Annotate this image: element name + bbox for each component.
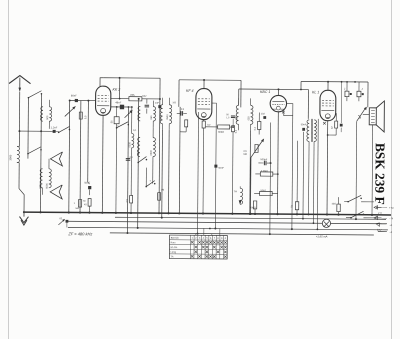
IF2 coil b	[251, 105, 254, 124]
svg-text:102: 102	[261, 112, 266, 115]
resistor 705	[111, 98, 129, 100]
wire top rail 1	[103, 77, 160, 79]
coil L3	[132, 133, 134, 147]
capacitor C-KF4	[214, 165, 217, 168]
label 500	[46, 115, 49, 120]
svg-text:0500: 0500	[166, 114, 169, 120]
label 050b	[247, 116, 250, 121]
wire bus 5	[110, 233, 374, 235]
wire x115 drop	[116, 107, 118, 117]
scan edge right	[391, 0, 393, 339]
terminal arrow 2	[376, 217, 387, 219]
resistor R-KBC grid	[257, 121, 260, 129]
wire x178 drop	[178, 80, 180, 107]
coil L4b	[138, 138, 141, 157]
svg-text:500pF: 500pF	[260, 158, 267, 161]
svg-text:- A: - A	[389, 223, 392, 227]
label 040	[137, 115, 140, 120]
wave arrow lower	[50, 185, 62, 199]
label 5000	[46, 183, 49, 189]
svg-text:3000: 3000	[8, 154, 12, 160]
wire grid feed	[70, 99, 96, 101]
wire KL1 top	[327, 82, 329, 91]
trimmer C-var	[65, 107, 75, 116]
coil L2a	[40, 169, 43, 188]
coil L5b	[153, 138, 156, 157]
label 3000	[8, 154, 12, 160]
wire x127 vert	[126, 107, 129, 233]
wire KBC rail	[239, 88, 309, 91]
svg-text:502: 502	[142, 95, 147, 98]
label 0u5	[181, 108, 185, 111]
resistor R-x296	[295, 202, 298, 210]
wire vertical x27	[27, 98, 29, 159]
wire vertical x87	[87, 101, 90, 182]
wire KF4 cathode	[203, 120, 205, 121]
wire link row y132	[19, 130, 51, 132]
wire bus 2	[115, 217, 386, 219]
output transformer	[307, 120, 309, 142]
choke top b	[358, 82, 360, 91]
svg-text:0300: 0300	[150, 150, 153, 156]
label 0500	[166, 114, 169, 120]
svg-text:M.-Do.: M.-Do.	[171, 246, 179, 249]
svg-text:050: 050	[247, 116, 250, 121]
terminal arrow 3	[378, 223, 387, 225]
junction dots bus2	[161, 217, 163, 219]
terminal arrow 4	[378, 231, 387, 233]
svg-text:TA: TA	[171, 255, 174, 258]
wire KBC1 diode tap	[284, 104, 293, 116]
capacitor C5	[145, 104, 149, 106]
wire x152 coil	[152, 101, 154, 107]
scan edge left	[8, 0, 10, 339]
switch S2	[58, 132, 60, 134]
svg-text:kΩ: kΩ	[84, 204, 87, 206]
resistor R-IF1	[185, 120, 188, 127]
svg-text:3000: 3000	[39, 183, 42, 189]
wire x270 vert	[269, 123, 271, 163]
svg-text:500: 500	[46, 115, 49, 120]
switch S-net2	[350, 217, 352, 219]
wire KBC1 cathode	[277, 112, 280, 214]
wire vertical x80	[79, 101, 82, 213]
svg-text:705: 705	[130, 93, 135, 97]
trimmer arrow KK2	[125, 112, 131, 118]
switch S-net1	[347, 201, 349, 203]
wire anode row	[111, 106, 132, 108]
IF2 trim cap	[231, 115, 235, 117]
IF2 coil a	[236, 105, 239, 124]
wire x240 drop	[240, 80, 242, 107]
resistor R-x159	[158, 193, 161, 201]
wire KF4 top	[203, 80, 205, 88]
switch S3	[116, 127, 118, 129]
antenna	[9, 75, 31, 83]
wire vertical x40	[40, 94, 43, 212]
label 0300	[137, 150, 140, 156]
wire x307 drop	[307, 90, 309, 119]
svg-text:050: 050	[150, 115, 153, 120]
coil L-ant 3000	[17, 147, 20, 163]
capacitor C-KL1k	[340, 124, 343, 127]
resistor 40ohm	[337, 204, 340, 212]
svg-text:0,3MΩ: 0,3MΩ	[261, 170, 268, 173]
svg-text:400Ω: 400Ω	[250, 206, 256, 209]
wire KK2 top cap	[100, 78, 103, 87]
svg-text:2 V: 2 V	[378, 211, 382, 215]
svg-text:ZF = 480 kHz: ZF = 480 kHz	[67, 231, 92, 236]
svg-text:60kΩ: 60kΩ	[218, 131, 224, 134]
svg-text:+ M: + M	[389, 206, 393, 210]
resistor 42	[335, 121, 338, 128]
svg-text:020: 020	[159, 115, 162, 120]
wire rail drop x118	[119, 78, 121, 99]
resistor 400	[253, 201, 256, 209]
resistor R-IF2	[232, 126, 235, 132]
svg-text:80nF: 80nF	[71, 93, 77, 97]
choke top a	[346, 82, 348, 91]
table grid	[169, 235, 227, 259]
svg-text:50nF: 50nF	[218, 167, 224, 170]
wire transformer taps	[308, 147, 311, 214]
wire KBC1 top	[277, 89, 279, 95]
wire x161 drop	[161, 130, 164, 218]
label 020b	[235, 116, 238, 121]
wire bus 4	[68, 227, 388, 230]
table feed wires	[195, 234, 197, 236]
svg-text:1,2nF: 1,2nF	[51, 125, 58, 129]
svg-text:Bereich: Bereich	[171, 237, 180, 240]
label 0u1M	[235, 129, 238, 133]
wire x166 drop	[168, 130, 171, 213]
coil L1b	[49, 107, 51, 121]
wire x246 drop	[249, 130, 252, 213]
ground	[23, 211, 25, 213]
coil L2b	[49, 169, 52, 188]
resistor 50k	[260, 191, 273, 195]
wire antenna lower	[18, 163, 20, 189]
coil L4a	[138, 107, 140, 121]
svg-text:KF 4: KF 4	[186, 89, 194, 93]
svg-text:0300: 0300	[137, 150, 140, 156]
svg-text:12V: 12V	[377, 228, 382, 232]
wire x372 vert	[371, 125, 374, 215]
junction dots bus4	[137, 227, 139, 229]
label 0100	[128, 141, 131, 147]
IF1 trim cap	[180, 111, 182, 115]
svg-text:Lang: Lang	[171, 251, 177, 254]
wire tone drop	[355, 121, 358, 219]
svg-text:Kurz: Kurz	[171, 241, 177, 244]
resistor 50	[114, 117, 119, 124]
svg-text:100: 100	[40, 115, 43, 120]
label 050	[150, 115, 153, 120]
resistor 60k	[206, 126, 218, 128]
svg-text:~ N: ~ N	[389, 216, 393, 220]
wire x292 vert	[291, 116, 294, 229]
wire x159 vert	[159, 78, 160, 213]
svg-text:48nF: 48nF	[115, 100, 121, 104]
svg-text:KL 1: KL 1	[312, 90, 319, 94]
wire x234 vert	[238, 89, 240, 105]
svg-text:1nF: 1nF	[155, 102, 160, 105]
switch S1b	[27, 153, 29, 155]
wave arrow upper	[50, 152, 62, 166]
wire x233 drop	[237, 124, 239, 130]
switch S1a	[28, 97, 30, 99]
label 020a	[159, 115, 162, 120]
coil 7A	[240, 188, 243, 204]
capacitor C-KBC	[263, 116, 266, 119]
label 100	[40, 115, 43, 120]
svg-text:0100: 0100	[128, 141, 131, 147]
wire KL1 cathode	[326, 121, 329, 215]
wire x300 drop	[300, 81, 302, 89]
wire KK2 cathode	[101, 115, 104, 212]
switch S5	[145, 186, 147, 188]
wire antenna lead	[18, 92, 20, 147]
resistor R2	[88, 199, 91, 207]
label BSK 239 F	[372, 143, 387, 205]
coil L1a	[41, 107, 43, 121]
wire bus 3	[67, 221, 386, 224]
resistor R3	[130, 195, 133, 203]
capacitor 500pF	[263, 161, 265, 165]
wire speaker left	[363, 113, 369, 115]
svg-text:+1,65 mA: +1,65 mA	[316, 234, 328, 238]
svg-text:MΩ: MΩ	[76, 208, 80, 210]
wire top rail 2	[179, 79, 241, 81]
svg-text:40Ω: 40Ω	[332, 203, 337, 206]
resistor R-KF4	[202, 121, 205, 128]
svg-text:020: 020	[235, 116, 238, 121]
capacitor C-x127	[126, 158, 130, 160]
svg-text:5000: 5000	[46, 183, 49, 189]
switch S4	[137, 162, 139, 164]
speaker	[369, 108, 376, 125]
capacitor C-x159	[158, 105, 161, 108]
wire x215 vert	[211, 103, 216, 228]
wire x197 vert	[197, 112, 200, 234]
wire vertical x69	[68, 100, 71, 212]
IF1 coil a	[160, 105, 163, 124]
svg-text:KK 2: KK 2	[112, 88, 120, 92]
wire x137 vert	[138, 99, 139, 228]
wire x335 down	[328, 134, 336, 136]
wire x367 drop	[367, 82, 369, 107]
tone diagonal	[357, 108, 366, 121]
volume pot	[251, 140, 263, 157]
wire main ground bus	[25, 212, 391, 215]
svg-text:50kΩ: 50kΩ	[260, 189, 266, 192]
resistor R-ant	[79, 112, 82, 119]
tube KL1	[320, 90, 336, 121]
svg-text:040: 040	[137, 115, 140, 120]
svg-text:MΩ: MΩ	[243, 154, 247, 156]
svg-text:7A: 7A	[234, 189, 237, 193]
lamp	[322, 219, 330, 227]
IF1 coil b	[169, 105, 172, 124]
label 00300	[150, 150, 153, 156]
tube KK2	[95, 86, 110, 115]
terminal arrow 1	[376, 206, 387, 208]
tube KBC1	[270, 95, 287, 112]
svg-text:BSK 239 F: BSK 239 F	[372, 143, 387, 205]
svg-text:50nF: 50nF	[301, 123, 307, 126]
wire pot column	[250, 157, 252, 213]
tube KF4	[196, 88, 212, 119]
svg-text:1M: 1M	[161, 189, 164, 191]
label 3000b	[39, 183, 42, 189]
resistor 0M3	[260, 172, 273, 176]
wire top rail 3	[301, 80, 368, 83]
svg-text:KBC 1: KBC 1	[260, 90, 270, 94]
